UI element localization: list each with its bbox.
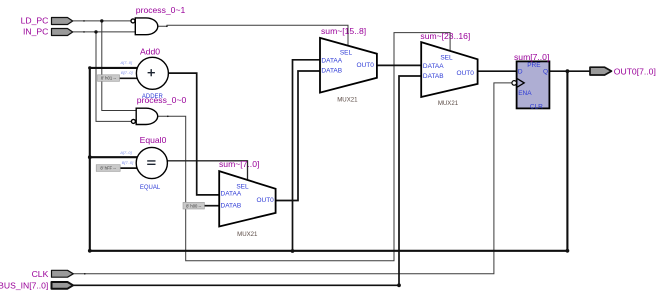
svg-text:DATAB: DATAB bbox=[221, 202, 242, 209]
svg-text:IN_PC: IN_PC bbox=[23, 27, 48, 37]
svg-text:CLK: CLK bbox=[32, 269, 49, 279]
svg-text:8' h01 --: 8' h01 -- bbox=[101, 76, 117, 81]
svg-text:OUT0: OUT0 bbox=[457, 70, 475, 77]
svg-text:Equal0: Equal0 bbox=[140, 135, 167, 145]
svg-text:Add0: Add0 bbox=[140, 47, 160, 57]
svg-text:MUX21: MUX21 bbox=[438, 100, 459, 107]
svg-text:OUT0[7..0]: OUT0[7..0] bbox=[614, 67, 656, 77]
svg-text:B[7..0]: B[7..0] bbox=[121, 70, 133, 75]
svg-text:DATAA: DATAA bbox=[321, 57, 342, 64]
svg-text:process_0~1: process_0~1 bbox=[136, 5, 186, 15]
svg-text:ADDER: ADDER bbox=[142, 94, 164, 100]
svg-text:BUS_IN[7..0]: BUS_IN[7..0] bbox=[0, 280, 48, 290]
svg-text:sum~[15..8]: sum~[15..8] bbox=[321, 26, 366, 36]
svg-text:LD_PC: LD_PC bbox=[21, 16, 49, 26]
svg-text:EQUAL: EQUAL bbox=[140, 185, 161, 191]
svg-text:CLR: CLR bbox=[530, 103, 543, 110]
svg-text:A[7..0]: A[7..0] bbox=[119, 150, 132, 155]
svg-text:A[7..0]: A[7..0] bbox=[120, 60, 133, 65]
svg-text:OUT0: OUT0 bbox=[357, 62, 375, 69]
svg-text:OUT0: OUT0 bbox=[256, 197, 274, 204]
svg-text:8' h00 --: 8' h00 -- bbox=[186, 203, 202, 208]
svg-text:sum~[23..16]: sum~[23..16] bbox=[420, 31, 470, 41]
svg-text:DATAA: DATAA bbox=[221, 190, 242, 197]
svg-text:PRE: PRE bbox=[527, 62, 541, 69]
svg-text:8' hFF --: 8' hFF -- bbox=[100, 166, 116, 171]
svg-text:Q: Q bbox=[543, 69, 548, 76]
svg-text:sum~[7..0]: sum~[7..0] bbox=[219, 159, 259, 169]
svg-text:MUX21: MUX21 bbox=[337, 97, 358, 104]
svg-text:DATAA: DATAA bbox=[423, 63, 444, 70]
svg-text:ENA: ENA bbox=[518, 90, 532, 97]
svg-text:MUX21: MUX21 bbox=[237, 231, 258, 238]
svg-text:sum[7..0]: sum[7..0] bbox=[514, 52, 549, 62]
svg-text:D: D bbox=[518, 69, 523, 76]
svg-text:SEL: SEL bbox=[440, 55, 453, 62]
svg-text:DATAB: DATAB bbox=[321, 68, 342, 75]
svg-text:SEL: SEL bbox=[340, 49, 353, 56]
svg-text:B[7..0]: B[7..0] bbox=[122, 160, 134, 165]
svg-text:DATAB: DATAB bbox=[423, 73, 444, 80]
